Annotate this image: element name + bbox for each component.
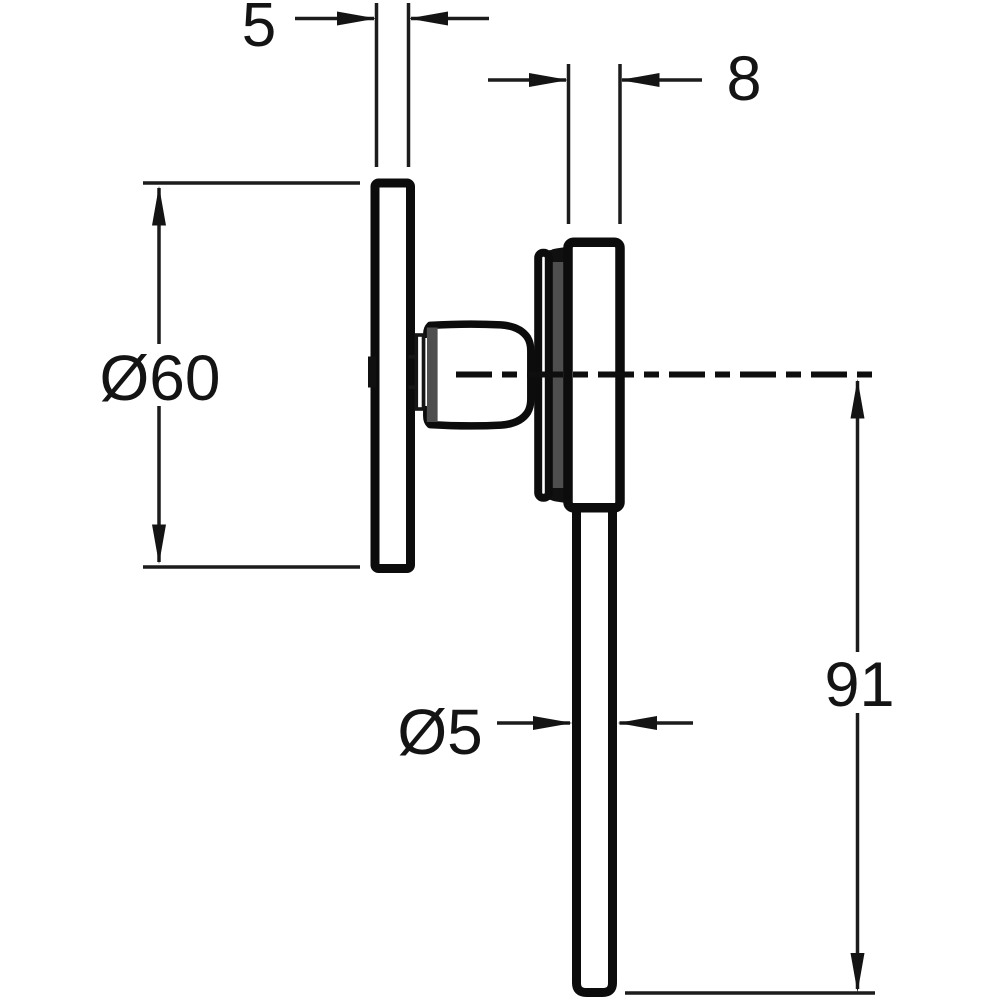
dimension 91: bottom extension line <box>625 991 875 995</box>
dimension 8: extension line right <box>618 64 622 224</box>
white sliver between bracket and knob shading <box>425 338 427 406</box>
svg-text:Ø60: Ø60 <box>100 342 221 414</box>
knob body <box>427 324 531 426</box>
dimension D60: extension line top <box>143 181 360 185</box>
dimension D5: left leader with arrow <box>497 716 573 730</box>
dimension D60: extension line bottom <box>143 565 360 569</box>
band (washer ring, side view) <box>538 253 549 498</box>
dimension 8: value label <box>726 44 761 114</box>
dimension 8: left leader with arrow <box>488 73 569 87</box>
svg-text:5: 5 <box>242 0 276 60</box>
hidden hole tick on plate left edge <box>368 357 376 388</box>
dimension 8: extension line left <box>567 64 571 224</box>
dimension 5: left leader with arrow <box>295 12 377 26</box>
rod (towel bar post) <box>577 503 613 993</box>
dimension D5: right leader with arrow <box>618 716 694 730</box>
dimension 5: extension line left <box>375 3 379 167</box>
dimension 5: extension line right <box>407 3 411 167</box>
svg-text:91: 91 <box>824 650 894 720</box>
dimension D5: value label <box>397 696 482 768</box>
dimension 5: right leader with arrow <box>409 12 490 26</box>
dimension D60: dimension line with arrows <box>152 186 166 564</box>
wall plate (escutcheon, side view) <box>375 183 411 569</box>
knob left shading strip <box>427 328 438 423</box>
junction wedge bottom <box>546 488 566 503</box>
dimension D60: value label <box>100 342 221 414</box>
dimension 91: dimension line with arrows <box>851 379 865 993</box>
svg-text:Ø5: Ø5 <box>397 696 482 768</box>
neck bracket between plate and knob <box>409 335 424 409</box>
svg-text:8: 8 <box>726 44 761 114</box>
shading strip between band and disc <box>549 250 566 500</box>
junction wedge top <box>546 247 566 262</box>
dimension 5: value label <box>242 0 276 60</box>
disc (mounting flange, side view) <box>568 242 620 508</box>
dimension 8: right leader with arrow <box>620 73 702 87</box>
centerline (dash-dot axis) <box>456 372 876 378</box>
dimension 91: value label <box>824 650 894 720</box>
